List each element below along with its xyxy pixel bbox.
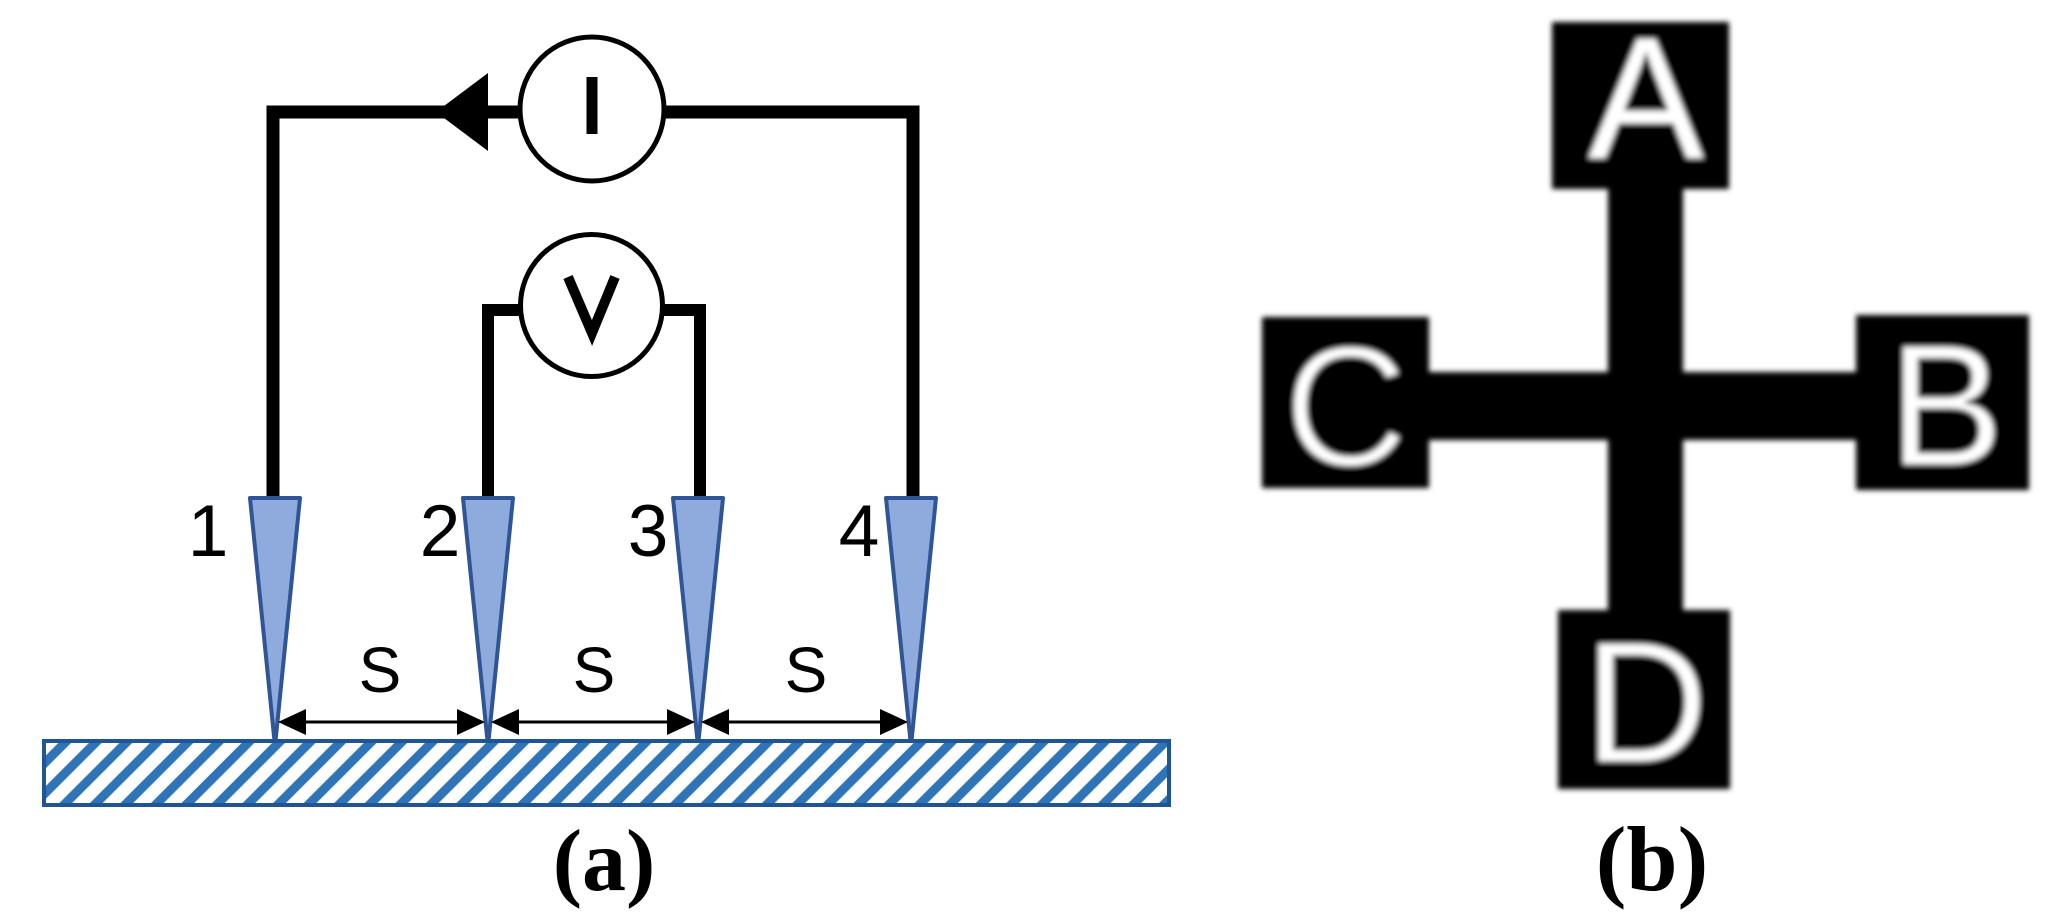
svg-text:B: B bbox=[1888, 308, 2003, 502]
svg-text:4: 4 bbox=[839, 491, 880, 572]
svg-text:(a): (a) bbox=[553, 813, 656, 910]
svg-text:A: A bbox=[1588, 1, 1704, 195]
svg-text:3: 3 bbox=[628, 491, 669, 572]
svg-text:S: S bbox=[785, 634, 828, 706]
svg-text:S: S bbox=[359, 634, 402, 706]
svg-text:D: D bbox=[1584, 605, 1709, 799]
svg-text:C: C bbox=[1284, 309, 1409, 503]
svg-text:1: 1 bbox=[188, 491, 229, 572]
svg-text:2: 2 bbox=[420, 491, 461, 572]
svg-text:(b): (b) bbox=[1596, 808, 1708, 910]
svg-text:S: S bbox=[573, 634, 616, 706]
